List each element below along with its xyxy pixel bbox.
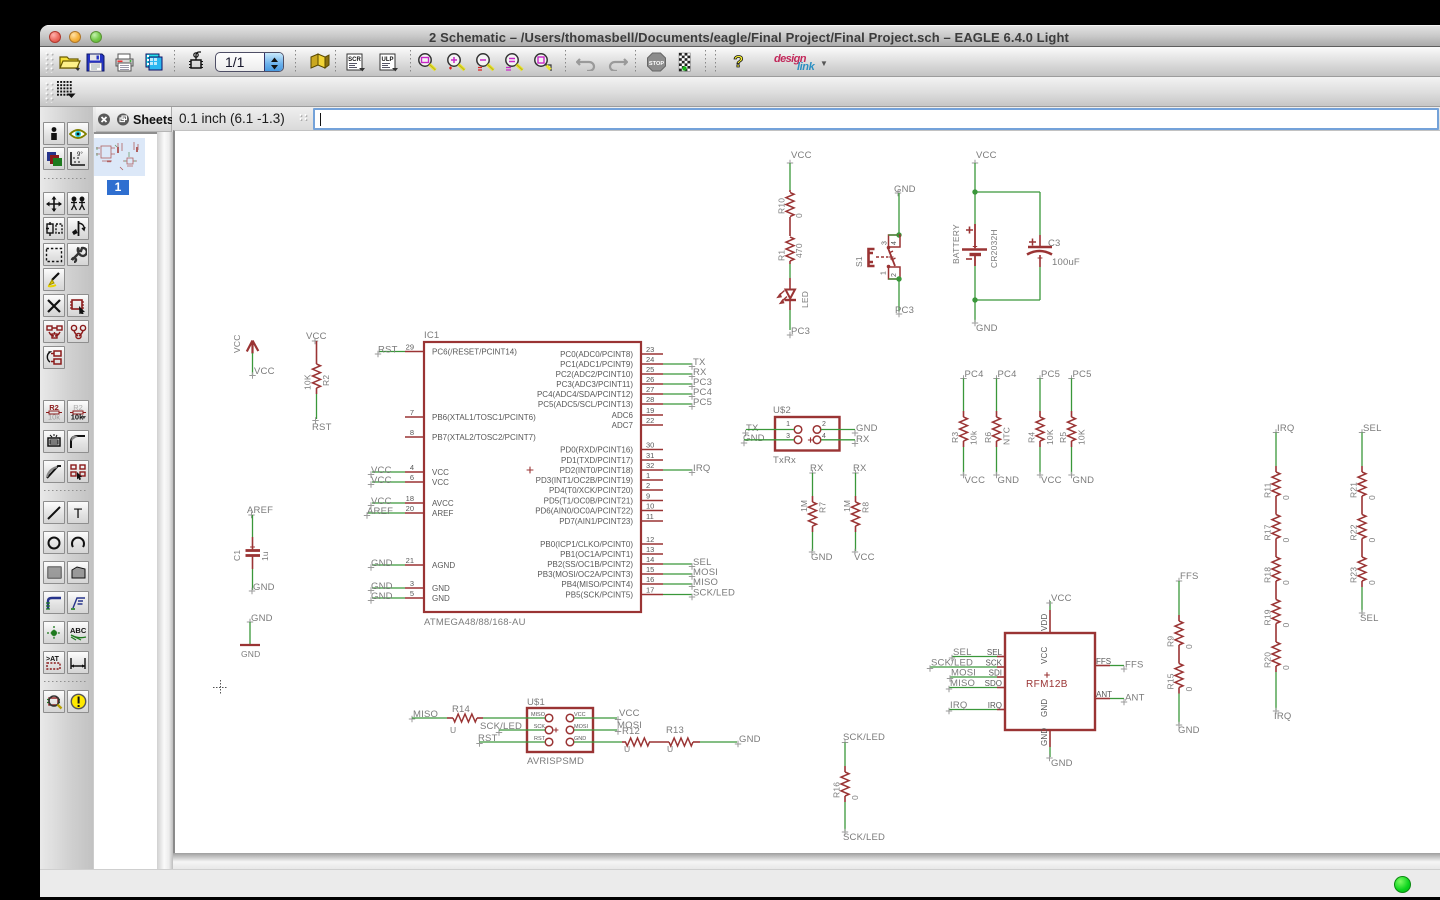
svg-text:VCC: VCC: [432, 468, 449, 477]
wire/pin IC1 right pin 25 PC2(ADC2/PCINT10): [556, 365, 707, 380]
svg-text:>AT: >AT: [46, 656, 60, 663]
svg-text:PB6(XTAL1/TOSC1/PCINT6): PB6(XTAL1/TOSC1/PCINT6): [432, 413, 536, 422]
svg-text:6: 6: [410, 473, 414, 482]
wire/pin IC1 right pin 16 PB4(MISO/PCINT4): [561, 575, 718, 590]
svg-text:12: 12: [646, 535, 654, 544]
wire chain link: [1275, 545, 1277, 552]
svg-text:15: 15: [646, 565, 654, 574]
svg-text:PC4(ADC4/SDA/PCINT12): PC4(ADC4/SDA/PCINT12): [537, 390, 633, 399]
svg-text:GND: GND: [241, 649, 261, 659]
svg-text:GND: GND: [371, 591, 393, 602]
wire/pin IC1 right pin 19 ADC6: [612, 406, 663, 420]
svg-text:VCC: VCC: [432, 478, 449, 487]
svg-text:R3: R3: [950, 432, 960, 443]
svg-text:9: 9: [646, 492, 650, 501]
svg-text:0: 0: [1281, 538, 1291, 543]
svg-text:VCC: VCC: [965, 475, 986, 486]
wire/pin IC1 left pin 18 AVCC: [368, 494, 454, 509]
svg-text:0: 0: [1184, 644, 1194, 649]
svg-text:28: 28: [646, 395, 654, 404]
wire/pin IC1 right pin 9 PD5(T1/OC0B/PCINT21): [544, 492, 663, 506]
svg-text:PB2(SS/OC1B/PCINT2): PB2(SS/OC1B/PCINT2): [547, 560, 633, 569]
svg-text:PC4: PC4: [998, 369, 1017, 380]
resistor R3 10k: [960, 369, 983, 411]
pin RFM12B SDI: [947, 668, 1005, 682]
wire IRQ chain bottom: [1273, 672, 1292, 722]
svg-text:?: ?: [733, 52, 743, 71]
svg-text:0: 0: [1184, 687, 1194, 692]
resistor R20 0: [1263, 636, 1292, 672]
svg-text:U$2: U$2: [773, 405, 791, 416]
svg-text:22: 22: [646, 416, 654, 425]
svg-text:10k: 10k: [48, 413, 60, 421]
wire/pin IC1 right pin 14 PB2(SS/OC1B/PCINT2): [547, 555, 711, 570]
svg-text:GND: GND: [976, 323, 998, 334]
svg-text:AREF: AREF: [432, 509, 453, 518]
svg-text:R11: R11: [1263, 482, 1273, 498]
svg-text:GND: GND: [811, 552, 833, 563]
wire/pin IC1 left pin 21 AGND: [368, 556, 456, 571]
svg-text:PB3(MOSI/OC2A/PCINT3): PB3(MOSI/OC2A/PCINT3): [537, 570, 633, 579]
svg-text:26: 26: [646, 375, 654, 384]
svg-text:IRQ: IRQ: [693, 463, 711, 474]
svg-text:VCC: VCC: [1041, 475, 1062, 486]
svg-text:RST: RST: [534, 736, 546, 742]
svg-text:10k: 10k: [969, 430, 979, 445]
svg-text:VCC: VCC: [1040, 646, 1049, 664]
svg-text:27: 27: [646, 385, 654, 394]
resistor R18 0: [1263, 551, 1292, 587]
svg-text:13: 13: [646, 545, 654, 554]
wire chain link: [1361, 502, 1363, 509]
svg-text:32: 32: [646, 461, 654, 470]
wire U$1 VCC right: [574, 708, 640, 723]
svg-text:4: 4: [891, 241, 898, 245]
svg-text:GND: GND: [1040, 728, 1049, 746]
wire/pin IC1 right pin 12 PB0(ICP1/CLKO/PCINT0): [540, 535, 663, 549]
resistor R22 0: [1349, 509, 1378, 545]
svg-text:VCC: VCC: [791, 150, 812, 161]
svg-text:FFS: FFS: [1096, 657, 1111, 666]
svg-text:VDD: VDD: [1040, 613, 1049, 631]
svg-text:R8: R8: [861, 502, 871, 513]
resistor R5 body: [1058, 411, 1087, 447]
svg-text:R9: R9: [1166, 636, 1176, 647]
svg-text:10: 10: [646, 502, 654, 511]
svg-text:AREF: AREF: [247, 505, 273, 516]
svg-text:MISO: MISO: [950, 678, 975, 689]
svg-text:PC0(ADC0/PCINT8): PC0(ADC0/PCINT8): [560, 350, 633, 359]
svg-text:VCC: VCC: [254, 366, 275, 377]
svg-text:R13: R13: [666, 725, 684, 736]
svg-text:ADC6: ADC6: [612, 411, 634, 420]
wire/pin IC1 right pin 30 PD0(RXD/PCINT16): [560, 441, 663, 455]
op-amp U1 : IC1 ATMEGA48/88/168-AU main box: [424, 342, 641, 612]
svg-text:PD3(INT1/OC2B/PCINT19): PD3(INT1/OC2B/PCINT19): [536, 476, 634, 485]
svg-text:GND: GND: [432, 594, 450, 603]
pin RFM12B SCK: [927, 658, 1005, 672]
wire VCC to C3: [975, 191, 1040, 193]
svg-text:R10: R10: [777, 198, 787, 214]
svg-text:SEL: SEL: [1360, 613, 1379, 624]
svg-text:GND: GND: [1040, 699, 1049, 717]
svg-text:T: T: [74, 505, 83, 521]
svg-text:RST: RST: [312, 422, 332, 433]
svg-text:0: 0: [1367, 538, 1377, 543]
svg-text:1: 1: [786, 421, 790, 428]
svg-text:0: 0: [1281, 665, 1291, 670]
svg-text:R12: R12: [622, 726, 640, 737]
wire/pin IC1 left pin 3 GND: [368, 579, 450, 594]
op-amp U2 : RFM12B radio module box: [1005, 633, 1095, 730]
wire/pin IC1 right pin 17 PB5(SCK/PCINT5): [565, 586, 735, 601]
svg-text:PD5(T1/OC0B/PCINT21): PD5(T1/OC0B/PCINT21): [544, 497, 634, 506]
svg-text:R21: R21: [1349, 482, 1359, 498]
resistor R21 0: [1349, 466, 1378, 502]
ground symbol GND: [240, 613, 273, 659]
svg-text:MISO: MISO: [693, 577, 718, 588]
svg-text:4: 4: [410, 463, 414, 472]
capacitor C3 100uF: [1027, 235, 1080, 268]
svg-text:GND: GND: [856, 423, 878, 434]
wire/pin IC1 right pin 22 ADC7: [612, 416, 663, 430]
svg-text:PB4(MISO/PCINT4): PB4(MISO/PCINT4): [561, 580, 633, 589]
svg-text:PC2(ADC2/PCINT10): PC2(ADC2/PCINT10): [556, 370, 634, 379]
svg-text:AGND: AGND: [432, 561, 455, 570]
svg-text:3: 3: [786, 433, 790, 440]
svg-text:SCK: SCK: [534, 724, 546, 730]
svg-text:GND: GND: [1178, 725, 1200, 736]
resistor R4 body: [1027, 411, 1056, 447]
svg-text:PD7(AIN1/PCINT23): PD7(AIN1/PCINT23): [559, 517, 633, 526]
wire SEL chain bottom: [1359, 587, 1379, 624]
svg-text:20: 20: [406, 504, 414, 513]
resistor R16 SCK/LED: [842, 732, 885, 766]
svg-text:FFS: FFS: [1125, 660, 1144, 671]
pin RFM12B FFS right: [1095, 657, 1144, 672]
svg-text:17: 17: [646, 586, 654, 595]
svg-text:NTC: NTC: [1002, 427, 1012, 445]
svg-text:14: 14: [646, 555, 654, 564]
pin RFM12B SEL: [949, 647, 1005, 661]
svg-text:1: 1: [881, 271, 888, 275]
svg-text:R16: R16: [832, 782, 842, 798]
wire/pin IC1 right pin 28 PC5(ADC5/SCL/PCINT13): [538, 395, 712, 410]
svg-text:2: 2: [646, 481, 650, 490]
svg-text:LED: LED: [800, 291, 810, 308]
wire/pin IC1 left pin 29 PC6(/RESET/PCINT14): [375, 343, 517, 358]
wire/pin IC1 right pin 27 PC4(ADC4/SDA/PCINT12): [537, 385, 712, 400]
resistor R10 0: [777, 190, 805, 236]
svg-text:3: 3: [882, 241, 889, 245]
svg-text:VCC: VCC: [1051, 593, 1072, 604]
pin RFM12B ANT right: [1095, 690, 1145, 705]
svg-text:U: U: [450, 725, 456, 735]
svg-text:R2: R2: [321, 375, 331, 386]
wire U$1 MOSI right: [574, 720, 642, 735]
connector U$1 AVRISPSMD: [527, 697, 593, 767]
resistor R23 0: [1349, 551, 1378, 587]
wire/pin IC1 left pin 7 PB6(XTAL1/TOSC1/PCINT6): [405, 408, 536, 422]
wire/pin IC1 left pin 4 VCC: [368, 463, 449, 478]
svg-text:SCK/LED: SCK/LED: [693, 588, 735, 599]
wire FFS chain bottom: [1176, 694, 1200, 737]
svg-text:PC5(ADC5/SCL/PCINT13): PC5(ADC5/SCL/PCINT13): [538, 400, 633, 409]
svg-text:470: 470: [794, 243, 804, 258]
svg-text:PD6(AIN0/OC0A/PCINT22): PD6(AIN0/OC0A/PCINT22): [535, 507, 633, 516]
wire/pin IC1 right pin 15 PB3(MOSI/OC2A/PCINT3): [537, 565, 718, 580]
svg-text:U: U: [624, 744, 630, 754]
svg-text:VCC: VCC: [854, 552, 875, 563]
svg-text:23: 23: [646, 345, 654, 354]
svg-text:MISO: MISO: [531, 712, 546, 718]
svg-text:0: 0: [1281, 623, 1291, 628]
svg-text:PD2(INT0/PCINT18): PD2(INT0/PCINT18): [560, 466, 634, 475]
resistor R7 body: [799, 496, 828, 532]
svg-text:PC5: PC5: [693, 397, 712, 408]
svg-text:U$1: U$1: [527, 697, 545, 708]
resistor R14 + MISO wire: [409, 704, 545, 735]
svg-text:25: 25: [646, 365, 654, 374]
node SEL net top: [1359, 423, 1382, 466]
svg-text:CR2032H: CR2032H: [989, 229, 999, 268]
svg-text:R19: R19: [1263, 609, 1273, 625]
svg-text:10K: 10K: [1045, 429, 1055, 445]
svg-text:IC1: IC1: [424, 330, 439, 341]
capacitor C1 1u: [232, 505, 275, 594]
svg-text:0: 0: [1367, 495, 1377, 500]
svg-text:U: U: [667, 744, 673, 754]
svg-text:31: 31: [646, 451, 654, 460]
resistor R15 0: [1166, 658, 1195, 694]
svg-text:VCC: VCC: [574, 712, 586, 718]
resistor R6 NTC: [993, 369, 1016, 411]
resistor R19 0: [1263, 594, 1292, 630]
svg-text:PC5: PC5: [1041, 369, 1060, 380]
wire/pin IC1 right pin 32 PD2(INT0/PCINT18): [560, 461, 711, 476]
schematic drawing overlay: [173, 132, 1440, 853]
svg-text:10K: 10K: [303, 374, 313, 390]
resistor R7 1M: [809, 463, 824, 496]
svg-text:AVCC: AVCC: [432, 499, 454, 508]
wire/pin IC1 right pin 2 PD4(T0/XCK/PCINT20): [549, 481, 663, 495]
svg-text:R20: R20: [1263, 652, 1273, 668]
svg-text:C1: C1: [232, 550, 242, 561]
resistor R3 body: [950, 411, 979, 447]
svg-text:ANT: ANT: [1096, 690, 1112, 699]
svg-text:30: 30: [646, 441, 654, 450]
svg-text:ADC7: ADC7: [612, 421, 634, 430]
svg-text:Sheets: Sheets: [133, 113, 172, 127]
svg-text:TxRx: TxRx: [773, 455, 796, 466]
wire/pin IC1 right pin 11 PD7(AIN1/PCINT23): [559, 512, 663, 526]
svg-text:MOSI: MOSI: [574, 724, 589, 730]
resistor R8 body: [842, 496, 871, 532]
node VCC net label top: [787, 150, 812, 190]
svg-text:R14: R14: [452, 704, 470, 715]
node IRQ net top: [1273, 423, 1295, 466]
wire RST to U$1: [476, 733, 545, 747]
resistor R17 0: [1263, 509, 1292, 545]
svg-text:VCC: VCC: [306, 331, 327, 342]
svg-text:3: 3: [410, 579, 414, 588]
svg-text:1M: 1M: [799, 500, 809, 512]
wire/pin IC1 left pin 5 GND: [368, 589, 450, 604]
svg-text:VCC: VCC: [232, 334, 242, 353]
svg-text:S1: S1: [854, 256, 864, 267]
wire chain link: [1361, 545, 1363, 552]
svg-text:PD1(TXD/PCINT17): PD1(TXD/PCINT17): [561, 456, 633, 465]
svg-text:SCK/LED: SCK/LED: [843, 732, 885, 743]
svg-text:PB0(ICP1/CLKO/PCINT0): PB0(ICP1/CLKO/PCINT0): [540, 540, 633, 549]
svg-text:PB5(SCK/PCINT5): PB5(SCK/PCINT5): [565, 591, 633, 600]
svg-text:SDO: SDO: [985, 679, 1002, 688]
svg-text:GND: GND: [574, 736, 586, 742]
svg-text:11: 11: [646, 512, 654, 521]
svg-text:IRQ: IRQ: [1274, 711, 1292, 722]
svg-text:8: 8: [410, 428, 414, 437]
svg-text:R22: R22: [1349, 524, 1359, 540]
svg-text:PD0(RXD/PCINT16): PD0(RXD/PCINT16): [560, 446, 633, 455]
svg-text:GND: GND: [743, 433, 765, 444]
svg-text:24: 24: [646, 355, 654, 364]
resistor R16 body: [832, 766, 861, 802]
node FFS net top: [1176, 571, 1199, 615]
svg-text:10K: 10K: [1077, 429, 1087, 445]
svg-text:PC1(ADC1/PCINT9): PC1(ADC1/PCINT9): [560, 360, 633, 369]
svg-text:PB1(OC1A/PCINT1): PB1(OC1A/PCINT1): [560, 550, 633, 559]
svg-text:R17: R17: [1263, 524, 1273, 540]
svg-text:100uF: 100uF: [1052, 257, 1080, 268]
wire/pin IC1 right pin 26 PC3(ADC3/PCINT11): [556, 375, 712, 390]
pin RFM12B IRQ: [946, 700, 1005, 714]
svg-text:SCK: SCK: [986, 659, 1003, 668]
svg-text:R1: R1: [777, 250, 787, 261]
svg-text:4: 4: [822, 433, 826, 440]
connector U$2 TxRx: [741, 405, 878, 466]
svg-text:ATMEGA48/88/168-AU: ATMEGA48/88/168-AU: [424, 617, 526, 628]
resistor R5 10K: [1068, 369, 1091, 411]
svg-text:0: 0: [1281, 580, 1291, 585]
svg-text:FFS: FFS: [1180, 571, 1199, 582]
resistor R9 0: [1166, 615, 1195, 651]
svg-text:PB7(XTAL2/TOSC2/PCINT7): PB7(XTAL2/TOSC2/PCINT7): [432, 433, 536, 442]
svg-text:PC6(/RESET/PCINT14): PC6(/RESET/PCINT14): [432, 348, 517, 357]
svg-text:2: 2: [822, 421, 826, 428]
pin RFM12B GND bottom: [1040, 728, 1073, 769]
svg-text:R18: R18: [1263, 567, 1273, 583]
svg-text:1u: 1u: [260, 551, 270, 561]
svg-text:19: 19: [646, 406, 654, 415]
resistor R8 1M: [852, 463, 867, 496]
svg-text:PC4: PC4: [965, 369, 984, 380]
resistor R6 body: [983, 411, 1012, 447]
svg-text:18: 18: [406, 494, 414, 503]
wire chain link: [1178, 651, 1180, 658]
svg-text:29: 29: [406, 343, 414, 352]
svg-text:7: 7: [410, 408, 414, 417]
svg-text:SEL: SEL: [987, 648, 1003, 657]
svg-text:GND: GND: [371, 558, 393, 569]
svg-text:ABC: ABC: [70, 626, 87, 635]
svg-text:GND: GND: [251, 613, 273, 624]
wire chain link: [1275, 502, 1277, 509]
svg-text:IRQ: IRQ: [988, 701, 1002, 710]
svg-text:MOSI: MOSI: [951, 668, 976, 679]
pin RFM12B VDD top: [1040, 593, 1072, 633]
wire C3 to GND junction: [1039, 267, 1041, 300]
wire/pin IC1 left pin 8 PB7(XTAL2/TOSC2/PCINT7): [405, 428, 536, 442]
svg-text:AREF: AREF: [367, 506, 393, 517]
svg-text:9°: 9°: [77, 152, 83, 158]
svg-text:IRQ: IRQ: [950, 700, 968, 711]
svg-text:R15: R15: [1166, 673, 1176, 689]
svg-text:PC5: PC5: [1073, 369, 1092, 380]
pin RFM12B SDO: [946, 678, 1005, 692]
wire/pin IC1 right pin 1 PD3(INT1/OC2B/PCINT19): [536, 471, 663, 485]
svg-text:0: 0: [1367, 580, 1377, 585]
svg-text:PD4(T0/XCK/PCINT20): PD4(T0/XCK/PCINT20): [549, 486, 633, 495]
resistor R4 10K: [1037, 369, 1060, 411]
wire chain link: [1275, 630, 1277, 637]
svg-text:PC3: PC3: [791, 326, 810, 337]
switch S1: [854, 184, 916, 317]
svg-text:SDI: SDI: [989, 669, 1002, 678]
svg-text:16: 16: [646, 575, 654, 584]
wire/pin IC1 right pin 10 PD6(AIN0/OC0A/PCINT22): [535, 502, 663, 516]
svg-text:ANT: ANT: [1125, 693, 1145, 704]
resistor R1 470: [777, 237, 805, 278]
node VCC power symbol left: [232, 334, 275, 378]
svg-text:STOP: STOP: [649, 61, 664, 67]
resistor R12 + R13 GND chain: [574, 725, 761, 754]
svg-text:C3: C3: [1048, 238, 1061, 249]
svg-text:1M: 1M: [842, 500, 852, 512]
svg-text:IRQ: IRQ: [1277, 423, 1295, 434]
svg-text:RFM12B: RFM12B: [1026, 679, 1068, 690]
svg-text:0: 0: [1281, 495, 1291, 500]
svg-text:BATTERY: BATTERY: [951, 224, 961, 264]
svg-text:SCR: SCR: [348, 57, 361, 63]
wire/pin IC1 left pin 20 AREF: [364, 504, 454, 519]
svg-text:SCK/LED: SCK/LED: [843, 832, 885, 843]
svg-text:PC3(ADC3/PCINT11): PC3(ADC3/PCINT11): [556, 380, 633, 389]
svg-text:GND: GND: [1073, 475, 1095, 486]
wire/pin IC1 right pin 23 PC0(ADC0/PCINT8): [560, 345, 663, 359]
svg-text:AVRISPSMD: AVRISPSMD: [527, 756, 584, 767]
svg-text:0: 0: [794, 213, 804, 218]
svg-text:R6: R6: [983, 432, 993, 443]
svg-text:VCC: VCC: [619, 708, 640, 719]
svg-text:R5: R5: [1058, 432, 1068, 443]
wire SCK/LED to U$1: [480, 721, 545, 736]
wire/pin IC1 right pin 13 PB1(OC1A/PCINT1): [560, 545, 663, 559]
battery CR2032H: [951, 150, 999, 334]
svg-text:GND: GND: [739, 734, 761, 745]
svg-text:0: 0: [850, 795, 860, 800]
resistor R2 10K pullup: [303, 331, 332, 433]
svg-text:R23: R23: [1349, 567, 1359, 583]
cursor crosshair: [213, 680, 228, 695]
svg-text:GND: GND: [432, 584, 450, 593]
wire/pin IC1 right pin 24 PC1(ADC1/PCINT9): [560, 355, 706, 370]
svg-text:5: 5: [410, 589, 414, 598]
svg-text:VCC: VCC: [976, 150, 997, 161]
svg-text:21: 21: [406, 556, 414, 565]
svg-text:R4: R4: [1027, 432, 1037, 443]
svg-text:SEL: SEL: [1363, 423, 1382, 434]
wire/pin IC1 right pin 31 PD1(TXD/PCINT17): [561, 451, 663, 465]
